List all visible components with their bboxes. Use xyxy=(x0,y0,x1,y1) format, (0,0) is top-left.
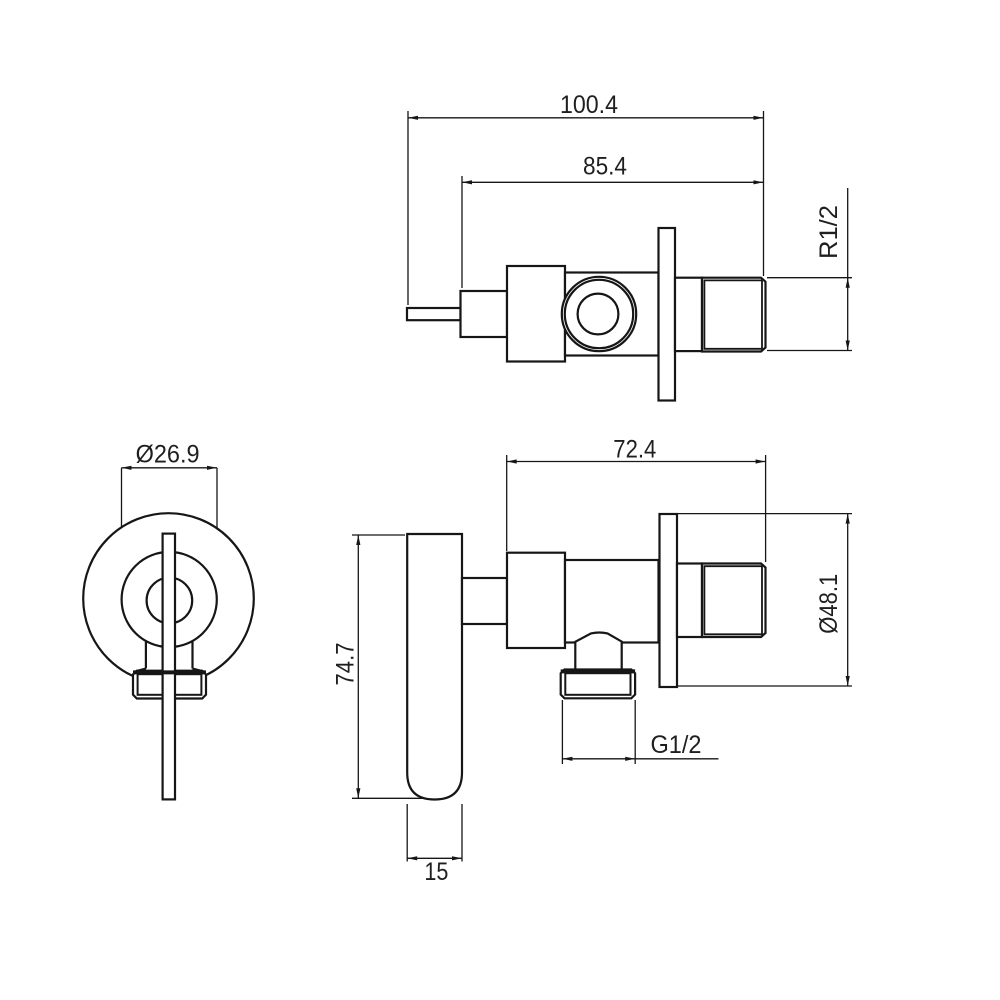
threaded nut inner line xyxy=(704,280,762,348)
dim G1/2 arrow right xyxy=(625,757,635,761)
outlet nut bold top edge (front) xyxy=(133,670,206,674)
svg-text:R1/2: R1/2 xyxy=(815,205,843,259)
outlet nut (side) xyxy=(561,670,635,699)
dim D26.9 arrow left xyxy=(122,466,132,470)
outlet nut bold top edge (side) xyxy=(561,669,635,673)
body ring outer circle xyxy=(562,277,636,351)
escutcheon big circle xyxy=(83,513,254,684)
dim R1/2 extension line bottom xyxy=(767,350,852,352)
dim G1/2 extension line left xyxy=(561,700,563,764)
dim 15 extension line left xyxy=(406,804,408,862)
valve stem block (plan) xyxy=(461,291,508,337)
outlet dome (side) xyxy=(575,633,621,671)
dim 85.4 extension line left xyxy=(461,176,463,288)
dim G1/2 line xyxy=(562,758,718,760)
dim D26.9 arrow right xyxy=(207,466,217,470)
dim 74.7 arrow top xyxy=(356,535,360,545)
threaded nut R1/2 (plan) xyxy=(702,278,766,352)
dim 15 extension line right xyxy=(461,804,463,862)
wall flange plate (side) xyxy=(660,514,678,687)
threaded nut R1/2 (side) xyxy=(702,564,766,638)
dim 85.4 line xyxy=(462,181,764,183)
svg-text:Ø26.9: Ø26.9 xyxy=(136,440,200,468)
body (side) xyxy=(565,560,659,643)
svg-text:G1/2: G1/2 xyxy=(651,731,702,759)
outlet pipe (front) xyxy=(146,641,193,669)
dim 72.4 arrow right xyxy=(756,459,766,463)
dim R1/2 arrow top xyxy=(846,278,850,288)
handle rod (plan) xyxy=(407,308,461,320)
svg-text:Ø48.1: Ø48.1 xyxy=(815,574,843,634)
dim D48.1 extension line bottom xyxy=(677,685,852,687)
dim D26.9 extension line left xyxy=(121,468,123,586)
dim 74.7 extension line top xyxy=(352,534,405,536)
dim 100.4 extension line left xyxy=(407,111,409,305)
dim 85.4 arrow left xyxy=(462,180,472,184)
dim 85.4 arrow right xyxy=(754,180,764,184)
dim R1/2 extension line top xyxy=(767,277,852,279)
svg-text:15: 15 xyxy=(424,858,448,886)
dim 100.4 line xyxy=(408,117,764,119)
svg-text:85.4: 85.4 xyxy=(583,152,627,180)
bonnet (side) xyxy=(507,553,565,648)
dim D48.1 line xyxy=(847,514,849,686)
dim G1/2 arrow left xyxy=(562,757,572,761)
svg-text:100.4: 100.4 xyxy=(560,91,618,119)
lever handle (side) xyxy=(407,534,462,800)
threaded nut inner line (side) xyxy=(704,566,762,634)
hub inner circle xyxy=(147,578,193,624)
outlet nut inner rect (front) xyxy=(138,674,202,695)
outlet flare (front) xyxy=(136,669,203,672)
svg-text:72.4: 72.4 xyxy=(613,435,656,463)
outlet nut inner rect (side) xyxy=(565,673,630,695)
valve body (plan) xyxy=(565,273,659,356)
dim 74.7 line xyxy=(357,535,359,798)
handle rod (front, overlaps circles) xyxy=(163,534,175,800)
dim 100.4 arrow right xyxy=(754,116,764,120)
dim 15 line xyxy=(407,857,462,859)
dim 72.4 extension line left xyxy=(506,455,508,551)
dim R1/2 arrow bottom xyxy=(846,341,850,351)
dim 15 arrow left xyxy=(407,856,417,860)
bonnet block (plan) xyxy=(507,266,565,362)
dim 100.4 / 85.4 shared extension line right xyxy=(763,111,765,276)
svg-text:74.7: 74.7 xyxy=(332,643,360,686)
dim 100.4 arrow left xyxy=(408,116,418,120)
escutcheon middle circle xyxy=(122,552,217,647)
body inner bore circle xyxy=(578,294,619,335)
dim D26.9 line xyxy=(122,467,218,469)
pipe between flange and nut (side) xyxy=(677,564,702,638)
pipe between flange and thread nut (plan) xyxy=(675,278,702,351)
dim 74.7 arrow bottom xyxy=(356,788,360,798)
dim D48.1 extension line top xyxy=(677,513,852,515)
outlet nut (front) xyxy=(133,671,206,699)
dim 74.7 extension line bottom xyxy=(352,797,425,799)
stem (side) xyxy=(462,578,507,624)
dim D48.1 arrow bottom xyxy=(846,676,850,686)
dim D26.9 extension line right xyxy=(216,468,218,586)
dim 15 arrow right xyxy=(452,856,462,860)
dim G1/2 extension line right xyxy=(634,700,636,764)
dim 72.4 arrow left xyxy=(507,459,517,463)
body ring inner circle of double ring xyxy=(565,280,633,348)
wall flange plate (plan) xyxy=(659,228,676,401)
dim 72.4 extension line right xyxy=(765,455,767,562)
dim 72.4 line xyxy=(507,461,766,463)
dim R1/2 line xyxy=(847,188,849,351)
dim D48.1 arrow top xyxy=(846,514,850,524)
